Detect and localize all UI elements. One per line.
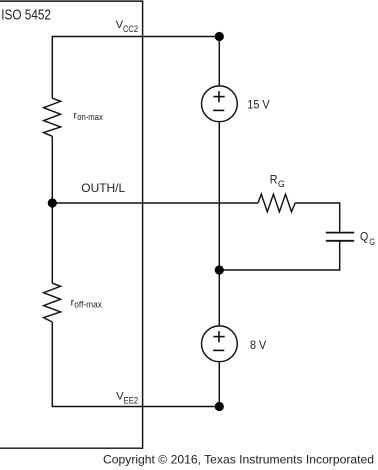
svg-text:off-max: off-max xyxy=(74,300,102,310)
svg-text:Copyright © 2016, Texas Instru: Copyright © 2016, Texas Instruments Inco… xyxy=(103,453,374,466)
svg-text:G: G xyxy=(369,237,375,247)
svg-text:8 V: 8 V xyxy=(250,338,267,352)
svg-text:15 V: 15 V xyxy=(247,97,270,111)
svg-text:ISO 5452: ISO 5452 xyxy=(1,8,51,24)
svg-text:G: G xyxy=(278,179,285,189)
svg-text:on-max: on-max xyxy=(77,112,103,122)
svg-text:R: R xyxy=(270,175,278,187)
svg-text:CC2: CC2 xyxy=(123,24,138,34)
svg-text:EE2: EE2 xyxy=(124,395,139,405)
svg-text:OUTH/L: OUTH/L xyxy=(81,181,125,195)
svg-text:Q: Q xyxy=(360,231,368,244)
